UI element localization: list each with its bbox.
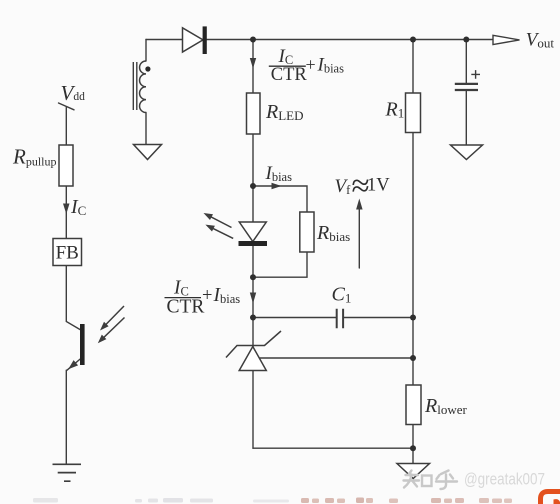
svg-text:Ibias: Ibias [213,285,241,306]
svg-text:1V: 1V [367,176,390,196]
svg-text:Vdd: Vdd [61,81,86,105]
svg-text:RLED: RLED [265,101,304,123]
svg-text:IC: IC [70,196,86,218]
svg-text:Rbias: Rbias [316,222,350,244]
svg-text:Vf: Vf [335,176,352,197]
svg-text:Rpullup: Rpullup [12,145,57,169]
svg-text:CTR: CTR [271,65,308,85]
svg-text:CTR: CTR [167,297,205,318]
svg-text:Ibias: Ibias [265,163,293,184]
svg-text:R1: R1 [385,99,405,121]
svg-text:Rlower: Rlower [424,395,467,417]
svg-text:FB: FB [56,243,79,264]
svg-text:+: + [202,286,212,306]
svg-text:@greatak007: @greatak007 [464,470,545,489]
svg-text:Vout: Vout [526,30,555,51]
svg-text:C1: C1 [332,284,352,306]
svg-text:Ibias: Ibias [317,55,345,76]
svg-text:+: + [306,55,316,75]
